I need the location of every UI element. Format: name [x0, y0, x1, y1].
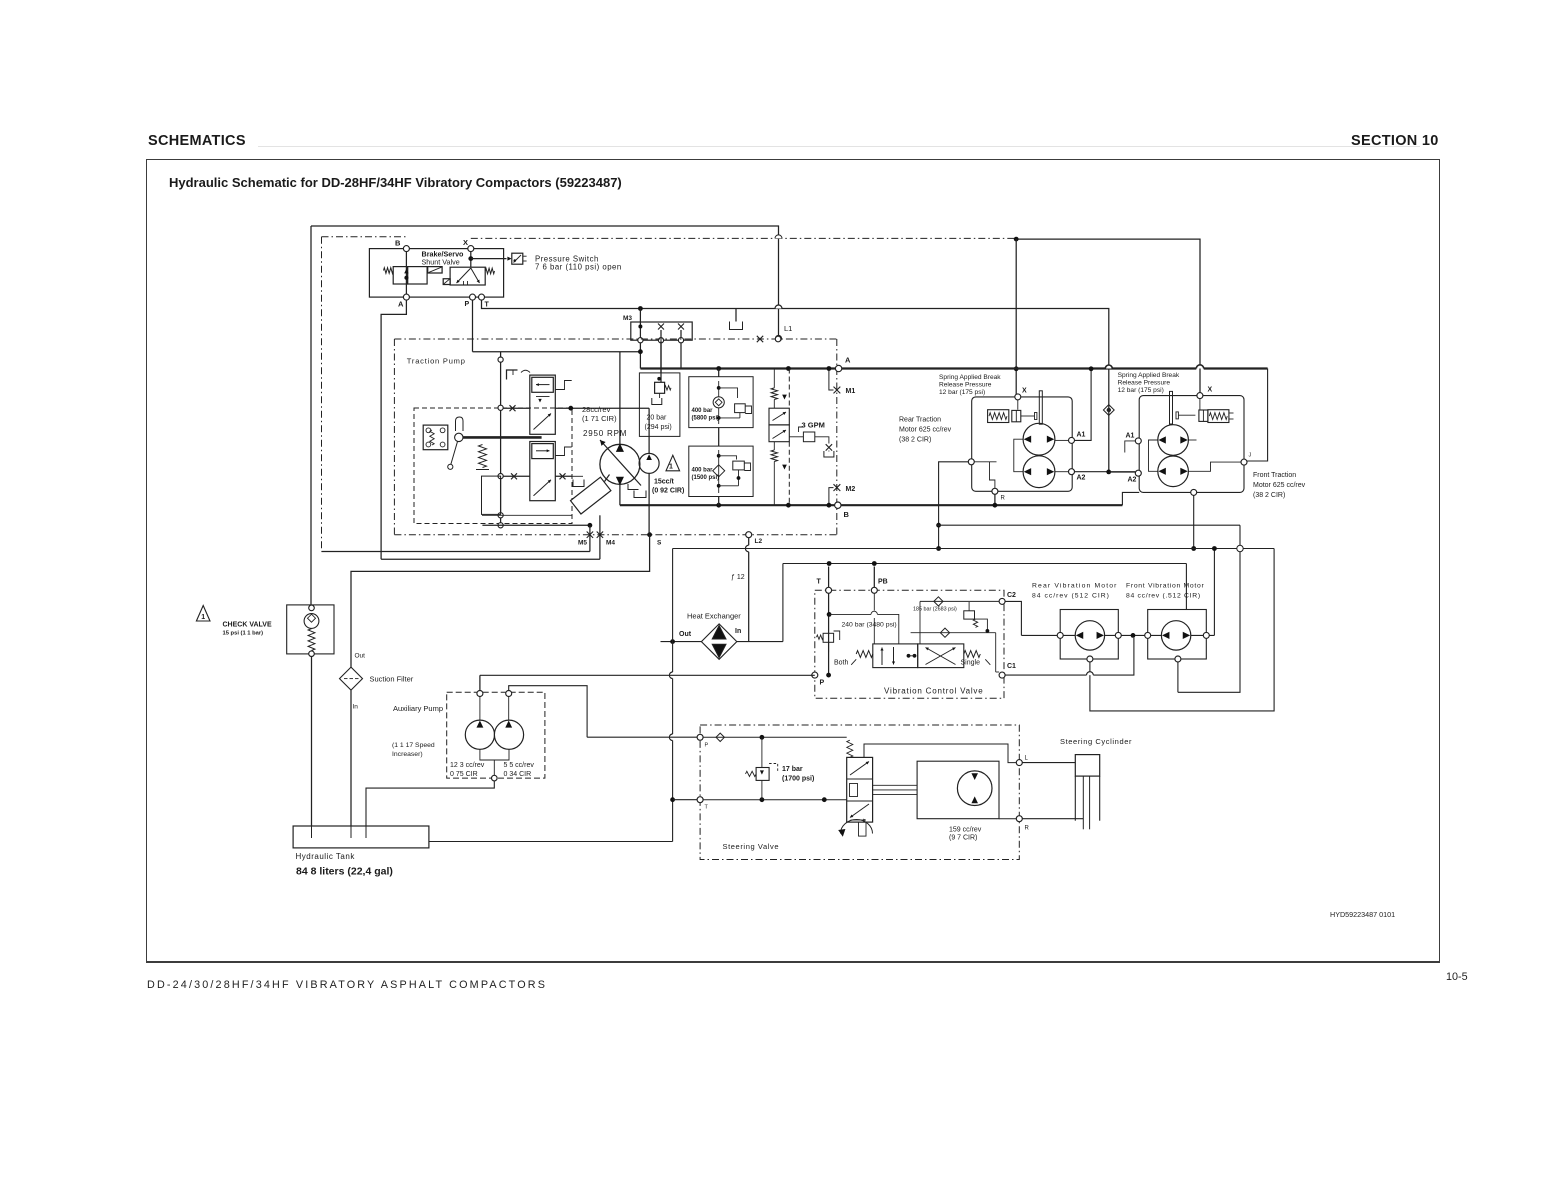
svg-text:P: P [465, 301, 470, 308]
svg-text:M5: M5 [578, 540, 587, 547]
svg-text:3 GPM: 3 GPM [802, 421, 825, 430]
svg-text:(1700 psi): (1700 psi) [782, 776, 814, 783]
svg-text:240 bar (3480 psi): 240 bar (3480 psi) [842, 622, 897, 629]
svg-text:Rear Vibration Motor: Rear Vibration Motor [1032, 583, 1118, 590]
svg-text:185 bar (2683 psi): 185 bar (2683 psi) [913, 607, 957, 613]
svg-text:Rear Traction: Rear Traction [899, 417, 941, 424]
svg-text:A: A [845, 356, 851, 365]
svg-text:12 bar (175 psi): 12 bar (175 psi) [939, 389, 985, 396]
svg-text:84 8 liters (22,4 gal): 84 8 liters (22,4 gal) [296, 866, 393, 878]
svg-text:Front Traction: Front Traction [1253, 472, 1296, 479]
svg-text:1: 1 [201, 614, 205, 621]
svg-text:In: In [353, 704, 359, 711]
svg-text:T: T [705, 805, 709, 811]
svg-text:Heat Exchanger: Heat Exchanger [687, 612, 741, 621]
svg-text:Steering Cyclinder: Steering Cyclinder [1060, 737, 1132, 746]
svg-text:L: L [1025, 756, 1029, 762]
svg-text:C2: C2 [1007, 592, 1016, 599]
svg-text:Out: Out [679, 631, 692, 638]
svg-text:Suction Filter: Suction Filter [370, 675, 414, 684]
svg-text:0 75 CIR: 0 75 CIR [450, 771, 478, 778]
svg-text:2950 RPM: 2950 RPM [583, 429, 627, 438]
svg-text:0 34 CIR: 0 34 CIR [504, 771, 532, 778]
svg-text:Steering Valve: Steering Valve [723, 842, 780, 851]
svg-text:A1: A1 [1126, 433, 1135, 440]
svg-text:In: In [735, 628, 741, 635]
svg-text:Front Vibration Motor: Front Vibration Motor [1126, 583, 1204, 590]
svg-text:A2: A2 [1128, 477, 1137, 484]
svg-text:A: A [398, 300, 404, 309]
svg-text:Traction Pump: Traction Pump [407, 357, 466, 366]
svg-text:28cc/rev: 28cc/rev [582, 405, 611, 414]
svg-text:(1 1 17 Speed: (1 1 17 Speed [392, 742, 435, 749]
svg-text:400 bar: 400 bar [692, 408, 714, 414]
svg-text:7 6 bar (110 psi) open: 7 6 bar (110 psi) open [535, 263, 622, 272]
svg-text:T: T [817, 579, 822, 586]
svg-text:Both: Both [834, 660, 849, 667]
svg-text:84 cc/rev (512 CIR): 84 cc/rev (512 CIR) [1032, 593, 1110, 600]
svg-text:C1: C1 [1007, 663, 1016, 670]
svg-text:A2: A2 [1077, 475, 1086, 482]
svg-text:B: B [844, 510, 850, 519]
svg-text:(0 92 CIR): (0 92 CIR) [652, 488, 684, 495]
svg-text:P: P [705, 743, 709, 749]
svg-text:(1500 psi): (1500 psi) [692, 475, 720, 481]
svg-text:17 bar: 17 bar [782, 766, 803, 773]
svg-text:X: X [1208, 387, 1213, 394]
svg-text:15cc/t: 15cc/t [654, 479, 675, 486]
svg-text:Vibration Control Valve: Vibration Control Valve [884, 687, 983, 696]
svg-text:400 bar: 400 bar [692, 468, 714, 474]
svg-text:M3: M3 [623, 315, 632, 322]
svg-text:(294 psi): (294 psi) [645, 424, 672, 431]
svg-text:ƒ 12: ƒ 12 [731, 574, 745, 581]
svg-text:(1 71 CIR): (1 71 CIR) [582, 414, 617, 423]
svg-text:L1: L1 [784, 324, 792, 333]
svg-text:M4: M4 [606, 540, 615, 547]
svg-text:B: B [395, 239, 401, 248]
svg-text:84 cc/rev (.512 CIR): 84 cc/rev (.512 CIR) [1126, 593, 1201, 600]
svg-text:M1: M1 [846, 388, 856, 395]
svg-text:Auxiliary Pump: Auxiliary Pump [393, 704, 443, 713]
svg-text:P: P [820, 680, 825, 687]
svg-text:J: J [1249, 453, 1252, 459]
svg-text:Out: Out [355, 653, 366, 660]
svg-text:(9 7 CIR): (9 7 CIR) [949, 835, 977, 842]
svg-text:12 bar (175 psi): 12 bar (175 psi) [1118, 387, 1164, 394]
svg-text:(5800 psi): (5800 psi) [692, 416, 720, 422]
svg-text:1: 1 [669, 464, 673, 471]
svg-text:Spring Applied Break: Spring Applied Break [1118, 372, 1180, 379]
svg-text:M2: M2 [846, 486, 856, 493]
svg-text:S: S [657, 540, 662, 547]
svg-text:Motor 625 cc/rev: Motor 625 cc/rev [1253, 482, 1306, 489]
svg-text:20 bar: 20 bar [647, 415, 668, 422]
svg-text:X: X [1022, 388, 1027, 395]
svg-text:Motor 625 cc/rev: Motor 625 cc/rev [899, 427, 952, 434]
svg-text:(38 2 CIR): (38 2 CIR) [899, 437, 931, 444]
svg-text:A1: A1 [1077, 432, 1086, 439]
svg-text:(38 2 CIR): (38 2 CIR) [1253, 492, 1285, 499]
svg-text:CHECK VALVE: CHECK VALVE [223, 622, 272, 629]
svg-text:5 5 cc/rev: 5 5 cc/rev [504, 762, 535, 769]
svg-text:R: R [1025, 826, 1030, 832]
svg-text:R: R [1001, 496, 1006, 502]
svg-text:Release Pressure: Release Pressure [939, 382, 992, 389]
svg-text:Release Pressure: Release Pressure [1118, 380, 1171, 387]
svg-text:15 psi (1 1 bar): 15 psi (1 1 bar) [223, 631, 264, 637]
svg-text:T: T [485, 302, 490, 309]
svg-text:Increaser): Increaser) [392, 751, 423, 758]
svg-text:Shunt Valve: Shunt Valve [422, 258, 460, 267]
svg-text:PB: PB [878, 579, 888, 586]
svg-text:Spring Applied Break: Spring Applied Break [939, 374, 1001, 381]
svg-text:L2: L2 [755, 538, 763, 545]
svg-text:Hydraulic Tank: Hydraulic Tank [296, 852, 356, 861]
svg-text:X: X [463, 238, 468, 247]
svg-text:Single: Single [961, 660, 981, 667]
svg-text:12 3 cc/rev: 12 3 cc/rev [450, 762, 485, 769]
svg-text:159 cc/rev: 159 cc/rev [949, 827, 982, 834]
